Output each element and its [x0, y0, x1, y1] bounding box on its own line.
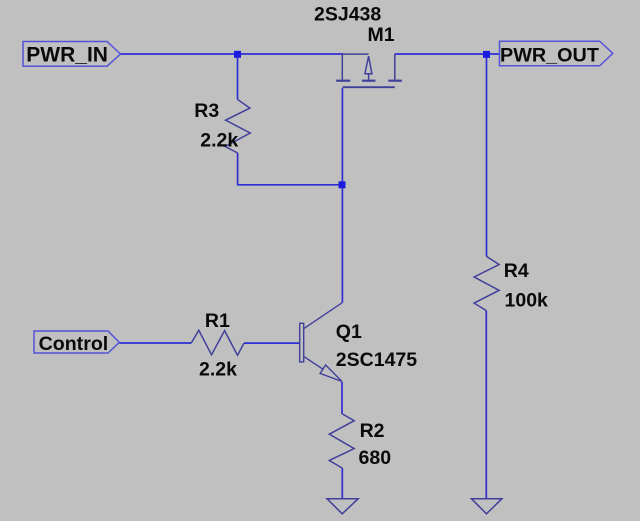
Q1 base bar [300, 323, 304, 362]
svg-text:R3: R3 [194, 100, 219, 122]
svg-text:PWR_IN: PWR_IN [26, 43, 108, 66]
Q1 collector diagonal [304, 303, 342, 329]
wire R4 to ground [485, 311, 487, 499]
wire PWR_IN node down to R3 [237, 54, 239, 99]
junction node at PWR_OUT / R4 [483, 51, 490, 58]
ground (right) [471, 499, 502, 514]
wire PWR_IN to junction and MOSFET source [121, 53, 344, 55]
M1 source bar [336, 80, 350, 82]
flag PWR_IN [23, 42, 121, 67]
wire Control to R1 [119, 342, 191, 344]
svg-text:680: 680 [359, 447, 392, 469]
wire R2 to ground [341, 468, 343, 498]
wire Q1 emitter to R2 [341, 382, 343, 414]
wire PWR_OUT node down to R4 [486, 54, 488, 256]
resistor R1 [191, 330, 244, 355]
svg-text:Control: Control [39, 333, 109, 355]
flag Control [34, 331, 119, 355]
junction node at PWR_IN / R3 [234, 51, 241, 58]
wire R3 bottom to gate node [238, 153, 342, 185]
svg-text:100k: 100k [505, 290, 549, 312]
mosfet M1 [336, 54, 402, 87]
svg-text:2.2k: 2.2k [200, 129, 238, 151]
Q1 emitter arrow [320, 365, 342, 382]
svg-text:Q1: Q1 [336, 321, 362, 343]
wire MOSFET drain to PWR_OUT [395, 53, 500, 55]
svg-text:2SC1475: 2SC1475 [336, 349, 417, 371]
wire gate node down to Q1 collector [341, 88, 343, 303]
svg-text:M1: M1 [368, 24, 395, 46]
svg-text:2SJ438: 2SJ438 [314, 4, 381, 26]
svg-text:R4: R4 [504, 260, 529, 282]
flag PWR_OUT [500, 41, 613, 66]
M1 body bar [362, 80, 375, 82]
resistor R4 [474, 256, 499, 310]
M1 drain bar [388, 80, 402, 82]
M1 drain lead [394, 54, 396, 80]
M1 body arrow [342, 53, 368, 55]
M1 gate plate [343, 86, 395, 88]
svg-text:R2: R2 [360, 420, 385, 442]
Q1 emitter diagonal [304, 356, 324, 369]
resistor R2 [329, 414, 354, 468]
M1 source lead [341, 54, 343, 80]
resistor R3 [225, 99, 250, 153]
svg-text:2.2k: 2.2k [199, 359, 237, 381]
junction node at gate / R3 / Q1 collector [339, 181, 346, 188]
ground (left) [327, 499, 358, 514]
wire R1 to Q1 base [244, 342, 300, 344]
svg-text:R1: R1 [205, 310, 230, 332]
svg-text:PWR_OUT: PWR_OUT [500, 45, 599, 67]
transistor Q1 [300, 303, 342, 382]
